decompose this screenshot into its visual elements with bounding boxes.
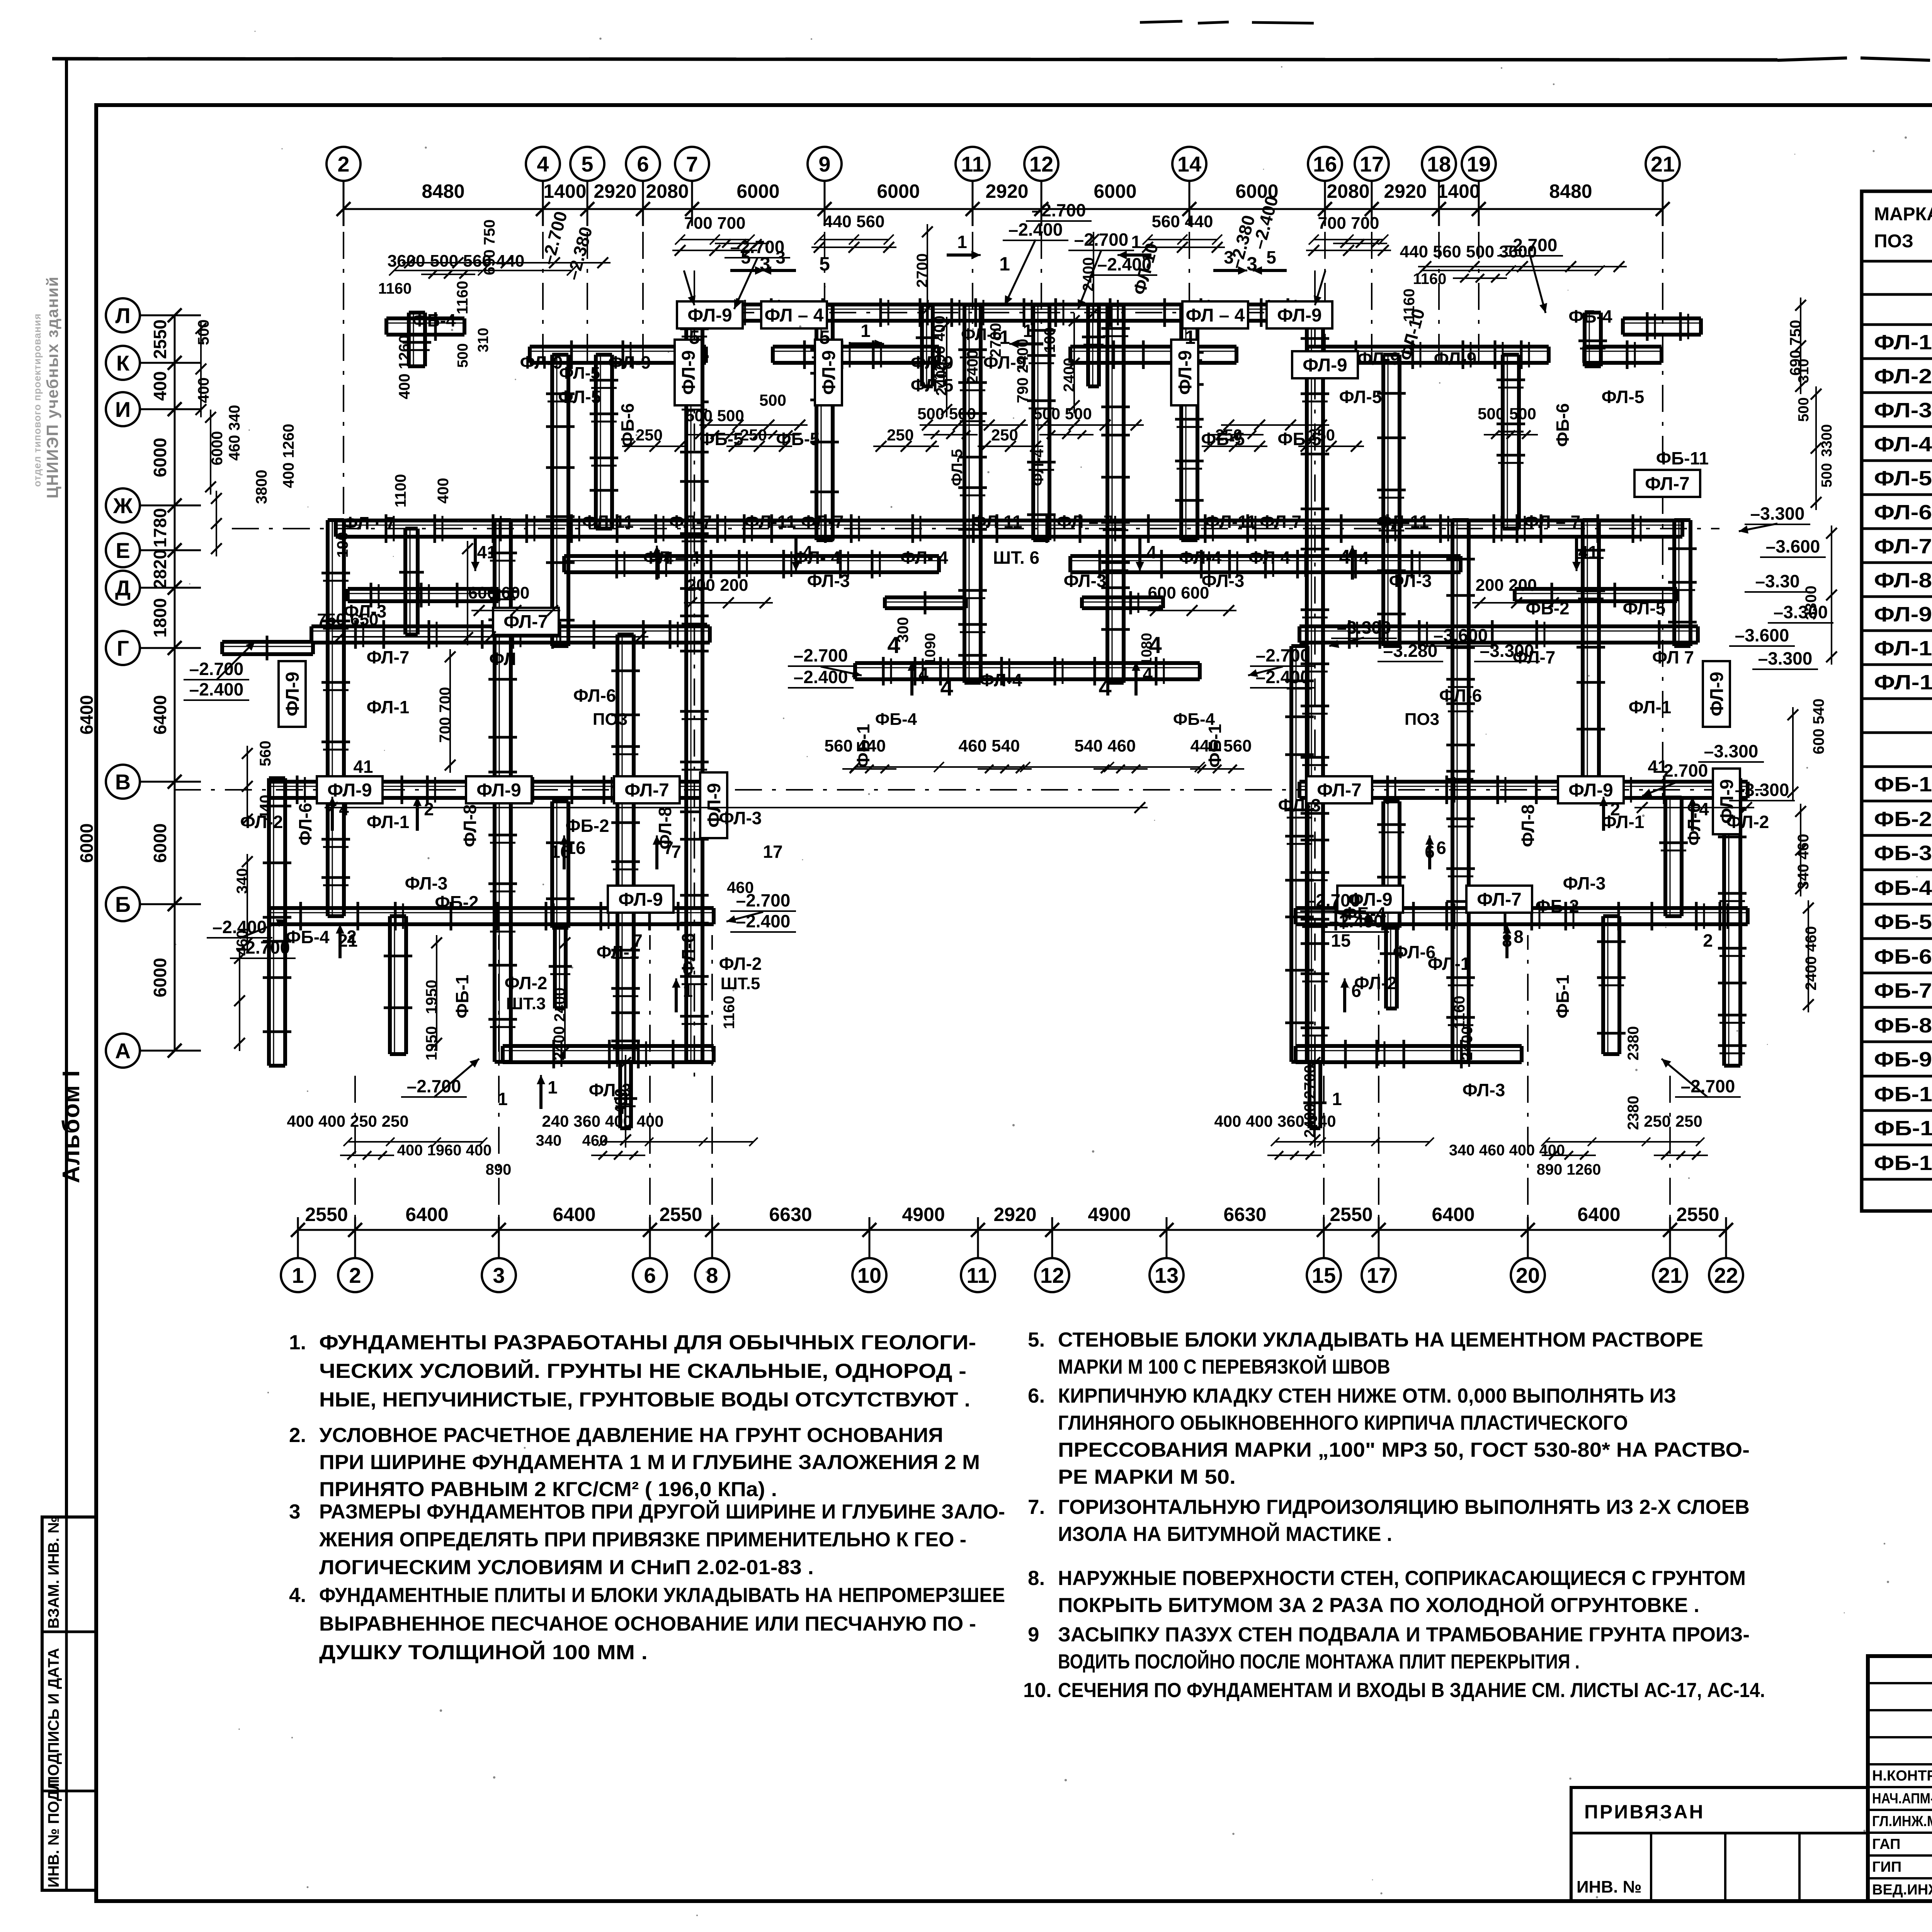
svg-text:2400: 2400 [933,362,950,396]
svg-text:ФЛ-9: ФЛ-9 [608,352,651,372]
svg-text:41: 41 [1578,542,1598,562]
svg-text:2400: 2400 [1061,358,1078,392]
axis bubble 12 (top) [1024,147,1058,181]
svg-text:ФЛ-11: ФЛ-11 [582,512,634,532]
misc tick clusters [695,430,704,439]
boxed label ФЛ-9 [1171,340,1198,405]
svg-text:ФЛ-7: ФЛ-7 [669,512,712,532]
svg-text:41: 41 [477,542,497,562]
svg-text:ЦНИИЭП учебных зданий: ЦНИИЭП учебных зданий [43,276,61,498]
foundation strip wall vertical x=3601 y=918..1672 [1381,355,1385,646]
foundation strip wall vertical x=1619 y=1642..2748 [616,634,619,1062]
axis bubble К (left) [106,346,140,380]
svg-text:5: 5 [741,247,751,267]
axis bubble 12 (bottom) [1035,1258,1069,1292]
svg-text:ФЛ-2: ФЛ-2 [505,973,548,993]
boxed label ФЛ-9 [1337,886,1403,913]
scan speckles [972,328,974,330]
svg-text:ЧЕСКИХ УСЛОВИЙ. ГРУНТЫ НЕ С: ЧЕСКИХ УСЛОВИЙ. ГРУНТЫ НЕ СКАЛЬНЫЕ, ОДНО… [319,1359,966,1383]
foundation strip wall vertical x=4122 y=809..948 [1583,313,1587,366]
svg-text:4: 4 [1339,546,1350,568]
svg-text:13: 13 [1155,1263,1179,1287]
svg-text:6630: 6630 [1223,1204,1266,1225]
svg-text:500: 500 [1819,463,1835,487]
svg-text:Альбом I: Альбом I [58,1070,85,1183]
svg-text:ГОРИЗОНТАЛЬНУЮ ГИДРОИЗОЛЯЦИЮ: ГОРИЗОНТАЛЬНУЮ ГИДРОИЗОЛЯЦИЮ ВЫПОЛНЯТЬ И… [1058,1496,1750,1519]
foundation strip wall vertical x=3078 y=789..1398 [1179,305,1183,540]
svg-text:2550: 2550 [305,1204,348,1225]
axis bubble А (left) [106,1034,140,1068]
svg-text:21: 21 [1658,1263,1682,1287]
svg-text:4: 4 [1699,799,1709,819]
foundation strip wall horizontal y=2044 x=697..1837 [269,780,710,784]
svg-text:–3.300: –3.300 [1735,780,1789,800]
svg-text:2820: 2820 [150,549,170,589]
svg-text:1: 1 [1023,321,1033,341]
svg-text:460 340: 460 340 [226,405,243,461]
svg-text:400 1260: 400 1260 [280,424,297,488]
svg-text:ФЛ-4: ФЛ-4 [1874,433,1932,456]
svg-text:15: 15 [1312,1263,1336,1287]
svg-text:ФЛ-3: ФЛ-3 [807,571,850,591]
svg-text:Ж: Ж [113,493,133,518]
svg-text:6000: 6000 [1094,180,1136,202]
svg-text:ФБ-3: ФБ-3 [1874,842,1932,865]
svg-text:ФБ-4: ФБ-4 [412,310,456,330]
svg-text:ФБ-2: ФБ-2 [1526,598,1569,618]
svg-text:540 460: 540 460 [1074,736,1136,755]
svg-text:1.: 1. [289,1331,306,1354]
svg-text:1400: 1400 [543,180,586,202]
svg-text:6400: 6400 [1432,1204,1475,1225]
svg-text:250 250: 250 250 [1644,1112,1702,1130]
svg-text:6000: 6000 [150,438,170,477]
svg-text:ФЛ-9: ФЛ-9 [1175,350,1196,395]
boxed label ФЛ-9 [608,886,673,913]
boxed label ФЛ-9 [317,776,383,803]
axis bubble 2 (top) [327,147,361,181]
svg-text:–3.300: –3.300 [1704,741,1759,761]
svg-text:ФЛ-9: ФЛ-9 [679,350,699,395]
svg-text:ШТ.5: ШТ.5 [721,974,760,993]
svg-text:3: 3 [493,1263,505,1287]
svg-text:ИЗОЛА НА БИТУМНОЙ МАСТИКЕ .: ИЗОЛА НА БИТУМНОЙ МАСТИКЕ . [1058,1522,1392,1546]
paper top edge line [52,59,1777,60]
svg-text:4900: 4900 [1088,1204,1131,1225]
boxed label ФЛ-9 [675,340,702,405]
foundation strip wall horizontal y=845 x=4200..4402 [1623,316,1701,320]
svg-text:700 700: 700 700 [437,687,454,743]
svg-text:КИРПИЧНУЮ КЛАДКУ СТЕН НИЖЕ: КИРПИЧНУЮ КЛАДКУ СТЕН НИЖЕ ОТМ. 0,000 ВЫ… [1058,1384,1676,1407]
svg-text:240 360 400 400: 240 360 400 400 [542,1112,663,1130]
foundation strip wall horizontal y=845 x=1000..1202 [386,316,464,320]
svg-text:4: 4 [918,664,929,684]
svg-text:ФЛ-7: ФЛ-7 [1477,889,1522,910]
svg-text:ФБ-2: ФБ-2 [1535,896,1579,916]
svg-text:890 1260: 890 1260 [1537,1161,1601,1178]
svg-text:ФЛ-5: ФЛ-5 [1623,598,1666,618]
sidebar rotated table [42,1517,96,1890]
svg-text:ФЛ-9: ФЛ-9 [476,780,521,801]
svg-text:4: 4 [803,542,813,562]
svg-text:6: 6 [644,1263,656,1287]
boxed label ФЛ-7 [1634,470,1700,497]
axis bubble 22 (bottom) [1709,1258,1743,1292]
svg-text:НАЧ.АПМ-1: НАЧ.АПМ-1 [1872,1791,1932,1807]
svg-text:ФЛ- 4: ФЛ- 4 [793,548,841,568]
svg-text:ФЛ-6: ФЛ-6 [1874,501,1932,524]
svg-text:6000: 6000 [736,180,779,202]
svg-text:ФЛ-3: ФЛ-3 [1064,571,1107,591]
svg-text:ФБ-6: ФБ-6 [1553,403,1573,447]
svg-text:ФЛ-5: ФЛ-5 [1874,467,1932,490]
svg-text:МАРКИ М 100 С ПЕРЕВЯЗКОЙ Ш: МАРКИ М 100 С ПЕРЕВЯЗКОЙ ШВОВ [1058,1355,1390,1378]
svg-text:14: 14 [1177,152,1201,176]
svg-text:6000: 6000 [877,180,920,202]
svg-text:8.: 8. [1028,1567,1045,1590]
svg-text:–3.600: –3.600 [1735,625,1789,645]
svg-text:ПО3: ПО3 [593,710,628,729]
boxed label ФЛ-9 [1713,769,1740,834]
svg-text:2550: 2550 [1330,1204,1372,1225]
svg-text:ФЛ-9: ФЛ-9 [1357,349,1400,369]
axis bubble 18 (top) [1422,147,1456,181]
svg-text:4: 4 [339,799,349,819]
svg-text:600 600: 600 600 [468,583,529,602]
svg-text:500 500: 500 500 [685,406,744,425]
foundation strip wall horizontal y=1460 x=2770..3780 [1070,554,1461,558]
foundation strip wall vertical x=1079 y=809..948 [407,313,411,366]
svg-text:ШТ.3: ШТ.3 [506,994,546,1013]
svg-text:1: 1 [548,1077,558,1097]
svg-text:–3.280: –3.280 [1383,641,1438,661]
svg-text:6000: 6000 [77,823,97,863]
svg-text:ФБ-10: ФБ-10 [1874,1083,1932,1106]
svg-text:2400: 2400 [964,350,981,384]
svg-text:400 400 250 250: 400 400 250 250 [287,1112,408,1130]
foundation strip wall vertical x=2134 y=789..1398 [815,305,818,540]
svg-text:4: 4 [940,675,953,701]
axis bubble 15 (bottom) [1307,1258,1341,1292]
svg-text:ФЛ-1: ФЛ-1 [1602,812,1645,832]
svg-text:–3.600: –3.600 [1766,536,1820,556]
axis bubble 6 (bottom) [633,1258,667,1292]
axis bubble 7 (top) [675,147,709,181]
axis bubble Д (left) [106,571,140,605]
svg-text:11: 11 [966,1263,989,1287]
foundation strip wall horizontal y=1368 x=869..4354 [336,519,1682,522]
svg-text:МАРКА: МАРКА [1874,204,1932,224]
svg-text:ГИП: ГИП [1872,1859,1901,1875]
svg-text:ЗАСЫПКУ ПАЗУХ СТЕН ПОДВАЛА: ЗАСЫПКУ ПАЗУХ СТЕН ПОДВАЛА И ТРАМБОВАНИЕ… [1058,1623,1750,1646]
svg-text:ФЛ-9: ФЛ-9 [687,305,732,326]
svg-text:ФЛ-5: ФЛ-5 [558,387,601,407]
svg-text:ИНВ. № ПОДЛ: ИНВ. № ПОДЛ [45,1779,62,1888]
foundation strip wall vertical x=869 y=1346..2074 [326,520,330,801]
svg-text:6630: 6630 [769,1204,812,1225]
svg-text:4900: 4900 [902,1204,945,1225]
svg-text:2700: 2700 [987,323,1004,357]
svg-text:2: 2 [337,152,349,176]
svg-text:1160: 1160 [378,280,412,297]
svg-text:–2.700: –2.700 [407,1076,461,1096]
svg-text:ПРЕССОВАНИЯ МАРКИ „100" МРЗ: ПРЕССОВАНИЯ МАРКИ „100" МРЗ 50, ГОСТ 530… [1058,1439,1750,1461]
svg-text:5: 5 [1266,247,1276,267]
svg-text:2400 460: 2400 460 [1803,926,1820,991]
boxed label ФЛ-9 [1703,661,1730,727]
svg-text:340: 340 [536,1132,562,1149]
svg-text:690 750: 690 750 [1787,320,1804,376]
svg-text:–2.700: –2.700 [1256,645,1310,665]
svg-text:10: 10 [857,1263,881,1287]
axis bubble 4 (top) [526,147,560,181]
svg-text:ПРИВЯЗАН: ПРИВЯЗАН [1584,1801,1705,1823]
svg-text:2550: 2550 [1676,1204,1719,1225]
svg-text:ДУШКУ ТОЛЩИНОЙ 100 ММ .: ДУШКУ ТОЛЩИНОЙ 100 ММ . [319,1640,648,1664]
svg-text:8480: 8480 [422,180,464,202]
svg-text:ФЛ-5: ФЛ-5 [1339,387,1382,407]
svg-text:ШТ. 6: ШТ. 6 [993,548,1039,568]
svg-text:4: 4 [1143,664,1153,684]
svg-text:17: 17 [763,842,782,862]
foundation strip wall horizontal y=918 x=1371..1827 [530,345,706,349]
svg-text:ФЛ-3: ФЛ-3 [405,873,448,893]
foundation strip wall vertical x=2517 y=789..1767 [963,305,966,683]
foundation strip wall vertical x=4170 y=2371..2728 [1601,916,1605,1054]
svg-text:1780: 1780 [150,508,170,548]
svg-text:440 560: 440 560 [1190,736,1252,755]
foundation strip wall horizontal y=2371 x=697..1847 [269,906,714,910]
svg-text:750 650: 750 650 [317,610,378,629]
svg-text:ФБ-1: ФБ-1 [1874,773,1932,796]
axis bubble 20 (bottom) [1511,1258,1545,1292]
svg-text:ФЛ 4: ФЛ 4 [1248,548,1291,568]
foundation strip wall horizontal y=1642 x=806..1837 [311,624,710,628]
boxed label ФЛ-7 [493,608,559,635]
foundation strip wall horizontal y=918 x=3383..4008 [1307,345,1549,349]
svg-text:–2.700: –2.700 [1681,1076,1735,1096]
svg-text:ФБ-4: ФБ-4 [286,927,330,947]
svg-text:ФБ-7: ФБ-7 [1874,979,1932,1002]
svg-text:–2.700: –2.700 [1032,200,1086,220]
svg-text:Б: Б [115,892,131,917]
svg-text:600 540: 600 540 [1810,699,1827,755]
svg-text:4: 4 [1359,548,1369,568]
svg-text:6400: 6400 [150,695,170,735]
svg-text:2080: 2080 [646,180,689,202]
boxed label ФЛ-9 [279,661,306,727]
foundation strip wall vertical x=1030 y=2371..2728 [388,916,392,1054]
svg-text:ФЛ-9: ФЛ-9 [618,889,663,910]
svg-text:ФЛ-11 ФЛ-7: ФЛ-11 ФЛ-7 [744,512,844,532]
svg-text:340 460 400 400: 340 460 400 400 [1449,1142,1565,1159]
svg-text:ФЛ-4: ФЛ-4 [980,670,1022,690]
svg-text:340 460: 340 460 [1795,834,1812,890]
svg-text:19: 19 [1467,152,1491,176]
svg-text:1: 1 [1131,232,1141,252]
svg-text:ФЛ 7: ФЛ 7 [1260,512,1301,532]
svg-text:РЕ МАРКИ М 50.: РЕ МАРКИ М 50. [1058,1466,1236,1488]
svg-text:1090: 1090 [922,633,939,666]
svg-text:ФЛ · 7: ФЛ · 7 [343,513,395,533]
boxed label ФЛ-9 [700,772,727,838]
svg-text:21: 21 [1651,152,1675,176]
svg-text:ФЛ-2: ФЛ-2 [1726,812,1769,832]
svg-text:2380: 2380 [1625,1026,1642,1061]
svg-text:И: И [115,397,131,422]
svg-text:ФБ-4: ФБ-4 [1874,876,1932,900]
foundation strip wall vertical x=717 y=2014..2758 [267,778,271,1066]
svg-text:ФЛ-1: ФЛ-1 [1874,331,1932,354]
svg-text:ФЛ-9: ФЛ-9 [1303,355,1347,376]
svg-text:2: 2 [347,927,357,947]
svg-text:ФЛ-5: ФЛ-5 [949,449,966,486]
svg-text:41: 41 [353,757,373,777]
svg-text:500: 500 [759,391,786,409]
svg-text:А: А [115,1039,131,1063]
svg-text:–2.400: –2.400 [736,911,791,931]
svg-text:ФЛ-9: ФЛ-9 [1434,349,1477,369]
svg-text:440 560: 440 560 [823,212,884,231]
svg-text:ФБ-2: ФБ-2 [1874,808,1932,831]
secondary dimension clutter [402,262,611,264]
svg-text:Н.КОНТР: Н.КОНТР [1872,1768,1932,1784]
svg-text:690 750: 690 750 [481,219,498,276]
svg-text:ПОЗ: ПОЗ [1874,231,1913,252]
boxed label ФЛ-7 [1466,886,1532,913]
svg-text:ФБ-12: ФБ-12 [1874,1151,1932,1175]
svg-text:1160: 1160 [1401,289,1418,322]
svg-text:ФЛ-9: ФЛ-9 [1277,305,1322,326]
axis bubble 19 (top) [1462,147,1496,181]
svg-text:ФЛ-6: ФЛ-6 [678,933,698,976]
foundation strip wall vertical x=1301 y=1346..2748 [493,520,497,1062]
svg-text:ФЛ – 4: ФЛ – 4 [1186,305,1245,326]
axis bubble 17 (top) [1355,147,1389,181]
svg-text:ПРИ ШИРИНЕ ФУНДАМЕНТА 1 М: ПРИ ШИРИНЕ ФУНДАМЕНТА 1 М И ГЛУБИНЕ ЗАЛО… [319,1451,980,1474]
svg-text:500: 500 [455,343,471,367]
boxed label ФЛ-9 [466,776,532,803]
axis bubble 16 (top) [1308,147,1342,181]
boxed label ФЛ – 4 [761,301,827,328]
svg-text:ФЛ-3: ФЛ-3 [719,808,762,828]
svg-text:1950: 1950 [423,980,440,1014]
axis bubble 11 (top) [956,147,990,181]
svg-text:22: 22 [1714,1263,1738,1287]
svg-text:ФЛ: ФЛ [489,649,516,669]
svg-text:ФЛ-7: ФЛ-7 [624,780,669,801]
svg-text:440: 440 [257,795,274,821]
svg-text:ФЛ-8: ФЛ-8 [1518,804,1538,847]
svg-text:ФБ-4: ФБ-4 [1568,306,1612,327]
svg-text:Л: Л [115,303,130,328]
svg-text:СТЕНОВЫЕ БЛОКИ УКЛАДЫВАТЬ Н: СТЕНОВЫЕ БЛОКИ УКЛАДЫВАТЬ НА ЦЕМЕНТНОМ Р… [1058,1328,1703,1351]
svg-text:4: 4 [1146,542,1156,562]
svg-text:700 700: 700 700 [684,214,745,233]
svg-text:ФЛ-9: ФЛ-9 [282,672,303,716]
svg-text:ФБ-8: ФБ-8 [1874,1014,1932,1037]
svg-text:2400: 2400 [1080,257,1097,292]
svg-text:ГАП: ГАП [1872,1836,1900,1852]
svg-text:340: 340 [234,868,251,894]
svg-text:1160: 1160 [721,996,738,1029]
svg-text:3: 3 [1224,247,1234,267]
foundation strip wall horizontal y=809 x=1797..3413 [694,303,1319,306]
svg-text:7: 7 [663,838,673,858]
svg-text:7: 7 [633,930,643,951]
top dimension line [344,208,1663,210]
svg-text:ФБ-1: ФБ-1 [452,975,472,1018]
svg-text:400 1960 400: 400 1960 400 [397,1142,492,1159]
svg-text:–2.700: –2.700 [1074,230,1129,250]
svg-text:1160: 1160 [1413,270,1447,287]
svg-text:3600 500 560 440: 3600 500 560 440 [388,252,525,270]
svg-text:–2.400: –2.400 [1256,667,1310,687]
svg-text:ФБ-5: ФБ-5 [1874,910,1932,934]
svg-text:3300: 3300 [1803,586,1820,620]
svg-text:ФБ-11: ФБ-11 [1656,448,1709,468]
boxed label ФЛ – 4 [1182,301,1248,328]
svg-text:ФЛ-8: ФЛ-8 [460,804,480,847]
svg-text:5.: 5. [1028,1328,1045,1351]
svg-text:3: 3 [776,247,786,267]
foundation strip wall vertical x=3780 y=1346..2748 [1451,520,1454,1062]
svg-text:ФЛ – 7: ФЛ – 7 [1524,512,1581,532]
boxed label ФЛ-9 [1558,776,1624,803]
svg-text:В: В [115,770,131,794]
svg-text:ФЛ-3: ФЛ-3 [1389,571,1432,591]
svg-text:460 540: 460 540 [958,736,1020,755]
foundation strip wall horizontal y=2728 x=1301..1847 [503,1044,714,1048]
svg-text:1160: 1160 [1451,996,1468,1029]
svg-text:1400: 1400 [1437,180,1480,202]
svg-text:ФУНДАМЕНТНЫЕ ПЛИТЫ И БЛОКИ: ФУНДАМЕНТНЫЕ ПЛИТЫ И БЛОКИ УКЛАДЫВАТЬ НА… [319,1584,1005,1607]
svg-text:Д: Д [115,576,131,600]
svg-text:500 500: 500 500 [1033,405,1092,423]
svg-text:2920: 2920 [985,180,1028,202]
axis bubble 21 (bottom) [1653,1258,1687,1292]
secondary dim lines [680,239,750,240]
svg-text:5: 5 [819,253,830,275]
svg-text:5: 5 [581,152,593,176]
foundation strip wall vertical x=2887 y=789..1767 [1105,305,1109,683]
axis bubble 2 (bottom) [338,1258,372,1292]
svg-text:ФБ-6: ФБ-6 [1874,945,1932,968]
parts table [1862,191,1932,1211]
axis bubble Л (left) [106,298,140,332]
boxed label ФЛ-9 [1292,351,1358,378]
svg-text:2.: 2. [289,1424,306,1447]
foundation strip wall vertical x=4483 y=2014..2758 [1722,778,1726,1066]
svg-text:ЛОГИЧЕСКИМ УСЛОВИЯМ И СНиП: ЛОГИЧЕСКИМ УСЛОВИЯМ И СНиП 2.02-01-83 . [319,1556,814,1579]
svg-text:1100: 1100 [392,474,409,508]
svg-text:ВЕД.ИНЖ: ВЕД.ИНЖ [1872,1882,1932,1898]
svg-text:2: 2 [349,1263,361,1287]
axis bubble 10 (bottom) [852,1258,886,1292]
svg-text:ФЛ-2: ФЛ-2 [719,954,762,974]
svg-text:Г: Г [117,636,129,660]
svg-text:700 700: 700 700 [1318,214,1379,233]
svg-text:ФЛ-11: ФЛ-11 [1377,512,1429,532]
svg-text:НАРУЖНЫЕ ПОВЕРХНОСТИ СТЕН, С: НАРУЖНЫЕ ПОВЕРХНОСТИ СТЕН, СОПРИКАСАЮЩИЕ… [1058,1567,1746,1590]
svg-text:Е: Е [116,538,130,563]
svg-text:РАЗМЕРЫ ФУНДАМЕНТОВ ПРИ ДРУГ: РАЗМЕРЫ ФУНДАМЕНТОВ ПРИ ДРУГОЙ ШИРИНЕ И … [319,1500,1005,1523]
svg-text:ФЛ-7: ФЛ-7 [367,647,410,667]
svg-text:250: 250 [1308,426,1335,444]
boxed label ФЛ-9 [1267,301,1332,328]
foundation strip wall horizontal y=1460 x=1460..2430 [564,554,939,558]
foundation strip wall vertical x=4354 y=1346..1672 [1672,520,1676,646]
